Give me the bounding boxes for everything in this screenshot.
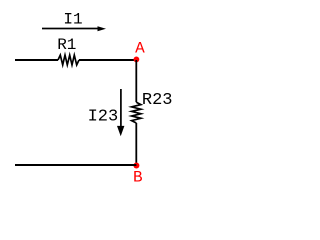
svg-text:B: B — [133, 169, 143, 187]
wire R1 to node A — [79, 59, 136, 61]
svg-text:R1: R1 — [57, 36, 76, 54]
svg-text:A: A — [135, 39, 145, 57]
node A — [134, 57, 140, 63]
node B — [133, 163, 139, 169]
wire top-left to R1 — [15, 59, 58, 61]
svg-text:I23: I23 — [88, 107, 119, 126]
wire node A to R23 — [135, 60, 137, 102]
svg-text:R23: R23 — [142, 91, 173, 110]
current arrow I1 — [42, 26, 106, 31]
svg-text:I1: I1 — [63, 11, 82, 29]
resistor R23 — [132, 102, 141, 123]
wire bottom — [15, 164, 136, 166]
resistor R1 — [58, 55, 79, 65]
current arrow I23 — [117, 89, 124, 136]
wire R23 to node B — [135, 123, 137, 165]
